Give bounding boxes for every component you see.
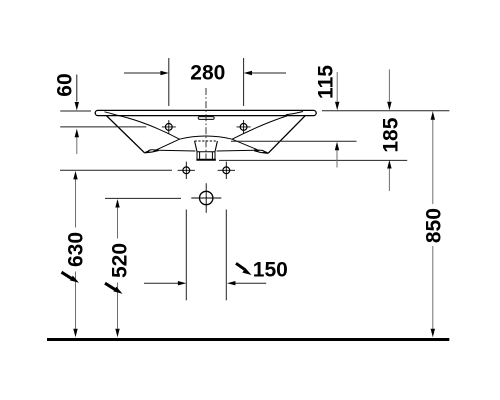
dimension 630 leader arrow bbox=[62, 272, 73, 279]
dimension 630 lower arrow bbox=[75, 272, 77, 329]
rim inner edge left tick bbox=[105, 112, 117, 115]
svg-text:520: 520 bbox=[109, 243, 132, 278]
drain hole bbox=[200, 191, 213, 204]
rim inner edge right curl bbox=[286, 112, 303, 115]
extension line drain-hole level left bbox=[105, 197, 181, 199]
dimension 520 lower arrow bbox=[117, 283, 119, 329]
floor line bbox=[47, 338, 449, 341]
extension line 185-bottom bbox=[219, 159, 407, 161]
svg-text:115: 115 bbox=[315, 65, 338, 99]
dimension 150 leader arrow bbox=[236, 263, 245, 269]
dimension 280 right arrow bbox=[252, 72, 286, 74]
extension line rim-top left bbox=[60, 110, 91, 112]
centerline (dash-dot) bbox=[205, 88, 207, 161]
extension line 150 right bbox=[225, 210, 227, 301]
underside edge left bbox=[158, 149, 195, 152]
left foot bbox=[144, 150, 158, 153]
svg-text:60: 60 bbox=[54, 73, 77, 96]
extension line 115-bottom bbox=[231, 140, 357, 142]
svg-text:630: 630 bbox=[65, 232, 88, 267]
washbasin rim bar bbox=[95, 110, 316, 115]
underside edge right bbox=[217, 149, 256, 152]
extension line rim-top right bbox=[322, 110, 449, 112]
fixing hole right bbox=[223, 167, 230, 174]
dimension 185 lower arrow bbox=[388, 169, 390, 192]
dimension 60 upper arrow bbox=[76, 75, 78, 102]
dome-to-foot line left bbox=[154, 139, 180, 151]
svg-text:150: 150 bbox=[253, 259, 288, 282]
dimension 630 upper arrow bbox=[75, 179, 77, 228]
fixing hole left bbox=[183, 167, 190, 174]
dimension 850 upper arrow bbox=[432, 120, 434, 205]
extension line faucet-hole level left bbox=[60, 126, 146, 128]
dimension 60 lower arrow bbox=[76, 137, 78, 154]
dimension 115 upper arrow bbox=[336, 72, 338, 102]
basin outer slope right bbox=[268, 116, 305, 154]
basin interior curve right bbox=[232, 116, 287, 139]
right foot bbox=[254, 150, 268, 153]
dimension 185 upper arrow bbox=[388, 69, 390, 101]
faucet hole right bbox=[240, 124, 247, 131]
extension line 150 left bbox=[185, 210, 187, 301]
extension line 280 right bbox=[243, 58, 245, 106]
basin interior curve left bbox=[116, 115, 179, 139]
svg-text:850: 850 bbox=[422, 208, 445, 243]
extension line fixing-hole level left bbox=[60, 169, 172, 171]
dimension 150 left arrow bbox=[144, 282, 178, 284]
dimension 150 right arrow bbox=[235, 282, 266, 284]
drain pipe bbox=[197, 152, 215, 160]
drain flange (hidden top edge dashed) bbox=[195, 140, 218, 142]
faucet hole left bbox=[165, 124, 172, 131]
siphon dome bbox=[180, 136, 233, 139]
dimension 520 upper arrow bbox=[117, 207, 119, 238]
dome-to-foot line right bbox=[232, 139, 257, 150]
basin outer slope left bbox=[106, 116, 144, 153]
extension line 280 left bbox=[168, 58, 170, 106]
overflow slot bbox=[198, 117, 214, 120]
dimension 850 lower arrow bbox=[432, 246, 434, 329]
svg-text:185: 185 bbox=[379, 117, 402, 152]
svg-text:280: 280 bbox=[190, 62, 225, 85]
dimension 115 lower arrow bbox=[336, 150, 338, 168]
dimension 520 leader arrow bbox=[105, 283, 116, 290]
dimension 280 left arrow bbox=[124, 72, 161, 74]
